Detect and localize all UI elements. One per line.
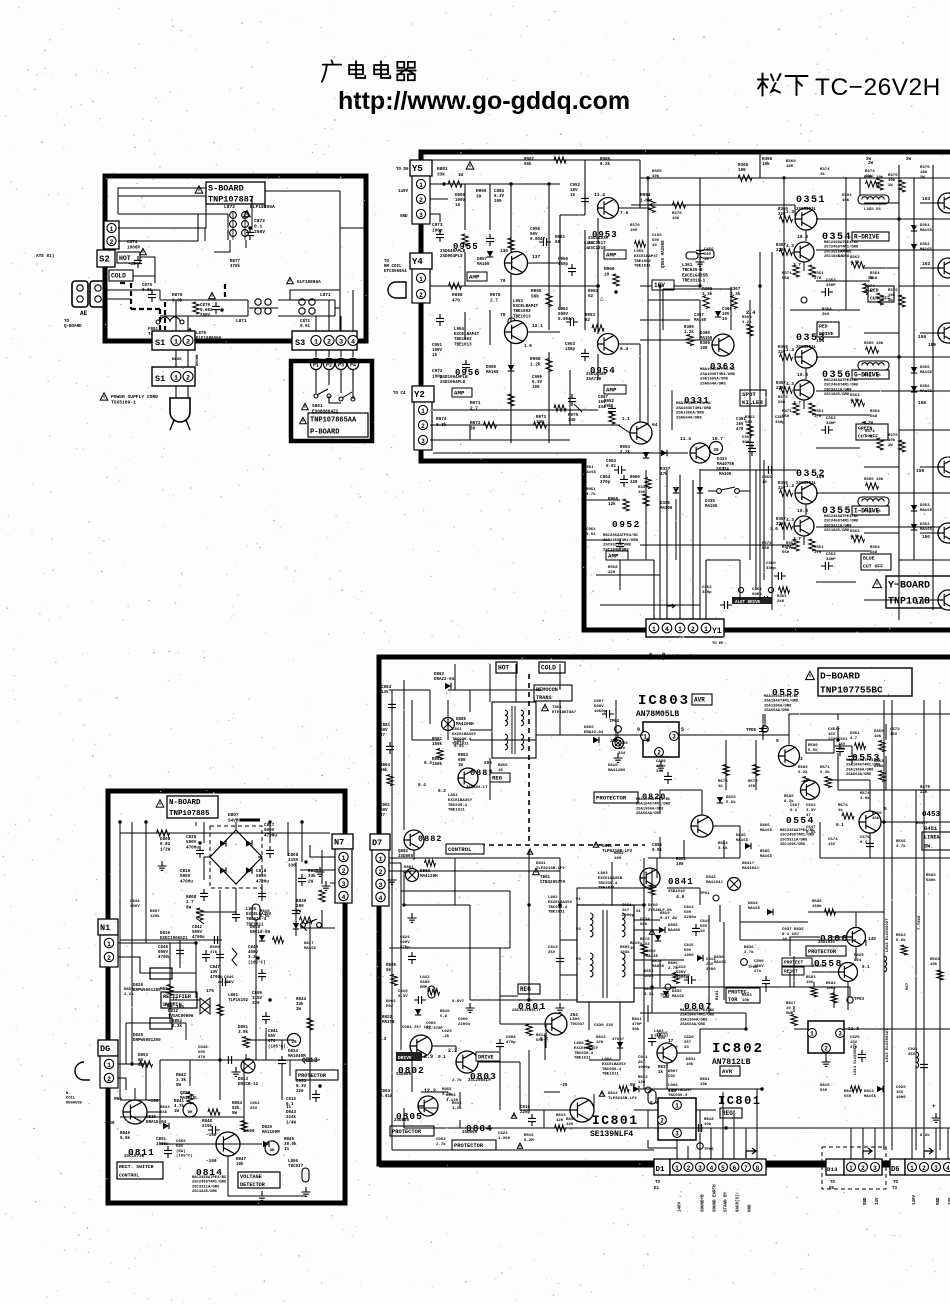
svg-text:D810: D810 [608, 764, 618, 768]
svg-text:TVSAC0000W: TVSAC0000W [168, 1015, 194, 1019]
svg-text:L801: L801 [228, 994, 239, 998]
svg-text:220: 220 [778, 351, 786, 355]
svg-text:MA4120H: MA4120H [608, 769, 625, 773]
svg-text:25?: 25? [684, 1041, 692, 1045]
svg-text:R851: R851 [124, 988, 134, 992]
svg-text:26: 26 [291, 1040, 297, 1045]
svg-text:R−DRIVE: R−DRIVE [854, 234, 880, 241]
svg-text:RESET: RESET [784, 969, 798, 975]
svg-text:R844: R844 [296, 998, 307, 1002]
svg-text:S2: S2 [99, 255, 110, 265]
svg-text:D860: D860 [648, 904, 658, 908]
svg-text:3: 3 [838, 1031, 842, 1038]
svg-text:R357: R357 [776, 244, 786, 248]
svg-text:C820: C820 [684, 1036, 694, 1040]
svg-text:C805: C805 [618, 742, 628, 746]
svg-text:HOT: HOT [498, 665, 509, 672]
svg-text:ELF18856A: ELF18856A [250, 204, 275, 210]
svg-text:C951: C951 [586, 528, 596, 532]
svg-text:26: 26 [713, 447, 719, 453]
svg-text:2: 2 [107, 955, 111, 962]
svg-text:C851: C851 [652, 844, 663, 848]
svg-text:120: 120 [596, 1041, 604, 1045]
svg-text:64: 64 [652, 422, 658, 428]
svg-text:EXCELBA35Y: EXCELBA35Y [602, 1063, 627, 1067]
svg-text:4.7: 4.7 [850, 737, 858, 741]
svg-text:R376: R376 [888, 289, 898, 293]
svg-text:TP04: TP04 [609, 720, 620, 724]
svg-text:2SA564A/OR8: 2SA564A/OR8 [764, 708, 790, 713]
svg-text:R583: R583 [806, 976, 816, 980]
svg-text:E1: E1 [654, 1187, 660, 1191]
svg-text:1.2k: 1.2k [530, 362, 541, 367]
svg-text:TBE1011: TBE1011 [574, 1057, 591, 1061]
svg-text:R013: R013 [638, 1076, 648, 1080]
svg-text:16V: 16V [828, 733, 836, 737]
svg-text:L813 ELC600027: L813 ELC600027 [886, 1028, 890, 1062]
svg-text:RED: RED [819, 323, 828, 329]
svg-text:(105°C): (105°C) [248, 960, 266, 965]
svg-text:137: 137 [532, 254, 541, 260]
svg-text:14V: 14V [876, 1197, 880, 1205]
svg-text:MA165: MA165 [920, 528, 933, 532]
svg-text:C846: C846 [224, 976, 234, 980]
svg-text:Y4: Y4 [412, 257, 423, 267]
svg-text:ER2CR-12: ER2CR-12 [238, 1083, 259, 1087]
svg-text:MA4104J: MA4104J [706, 881, 723, 885]
svg-text:REG: REG [722, 1110, 733, 1117]
svg-text:L305: L305 [838, 250, 848, 254]
svg-text:2.2k: 2.2k [620, 450, 631, 455]
svg-text:8.2k: 8.2k [920, 1133, 930, 1138]
svg-text:R373: R373 [778, 396, 788, 400]
svg-text:103k: 103k [620, 950, 630, 955]
svg-text:D841: D841 [536, 862, 546, 866]
svg-text:IC802: IC802 [712, 1041, 764, 1057]
svg-text:220: 220 [778, 213, 786, 217]
svg-text:R846: R846 [284, 1138, 295, 1142]
svg-text:(NA): (NA) [176, 1149, 186, 1154]
svg-text:2SC3953L: 2SC3953L [796, 208, 817, 212]
svg-text:D335: D335 [705, 500, 715, 504]
svg-text:R370: R370 [920, 166, 930, 170]
svg-text:2W: 2W [296, 1008, 302, 1012]
svg-text:1: 1 [849, 1165, 853, 1172]
svg-text:R574: R574 [838, 804, 848, 808]
svg-text:MA165: MA165 [760, 829, 773, 833]
svg-text:1k: 1k [630, 946, 635, 951]
svg-text:2SC1845/OR5: 2SC1845/OR5 [192, 1189, 218, 1194]
svg-text:1W: 1W [458, 764, 464, 768]
svg-text:1.0k: 1.0k [860, 796, 870, 801]
svg-text:10: 10 [786, 1007, 791, 1011]
svg-text:50V: 50V [700, 925, 708, 929]
svg-text:SE139NLF4: SE139NLF4 [590, 1130, 633, 1139]
svg-text:10V: 10V [722, 313, 730, 317]
svg-text:2SC3311A/OR6: 2SC3311A/OR6 [192, 1184, 220, 1189]
svg-text:2k8: 2k8 [777, 599, 785, 604]
svg-text:100: 100 [532, 386, 540, 390]
svg-text:2W: 2W [868, 162, 874, 166]
svg-text:L357 56: L357 56 [864, 374, 881, 378]
svg-text:P4: P4 [350, 363, 356, 369]
svg-text:1: 1 [678, 626, 682, 633]
svg-text:TNP107885: TNP107885 [169, 810, 210, 818]
svg-text:270: 270 [786, 547, 794, 551]
svg-text:1-2k: 1-2k [452, 1106, 462, 1111]
svg-text:D866: D866 [584, 726, 594, 730]
svg-text:MA860: MA860 [652, 965, 665, 969]
svg-text:10.8: 10.8 [797, 234, 808, 240]
svg-text:DH: DH [270, 1149, 275, 1153]
svg-text:1: 1 [704, 626, 708, 633]
svg-text:16V: 16V [570, 189, 578, 193]
svg-text:11.4: 11.4 [680, 436, 691, 442]
svg-text:136: 136 [500, 249, 508, 254]
svg-text:MA4120H: MA4120H [420, 875, 438, 879]
svg-text:D862: D862 [434, 673, 445, 677]
svg-text:R966: R966 [600, 158, 611, 162]
svg-text:D841: D841 [602, 845, 613, 849]
svg-text:MA105: MA105 [719, 473, 732, 477]
svg-text:MA165: MA165 [736, 839, 749, 843]
svg-text:50V: 50V [684, 949, 692, 953]
svg-text:ELF18896A: ELF18896A [297, 280, 321, 285]
svg-text:56k: 56k [160, 1110, 168, 1115]
svg-text:30k: 30k [632, 1027, 640, 1032]
svg-text:R970: R970 [490, 293, 501, 298]
svg-text:MA165: MA165 [714, 961, 727, 965]
svg-text:1.5k: 1.5k [850, 398, 860, 403]
svg-text:5: 5 [681, 727, 684, 733]
svg-text:470: 470 [452, 298, 460, 303]
svg-text:TC−26V2H: TC−26V2H [815, 74, 941, 101]
svg-text:3: 3 [800, 757, 803, 762]
svg-text:D808: D808 [668, 924, 678, 928]
svg-text:250V: 250V [200, 314, 211, 318]
svg-text:2W: 2W [906, 158, 912, 162]
svg-text:2SC2458T4M1/OR8: 2SC2458T4M1/OR8 [824, 383, 859, 388]
svg-text:TBC030-4: TBC030-4 [574, 1052, 594, 1056]
svg-text:4700u: 4700u [264, 833, 277, 838]
svg-text:R560: R560 [872, 812, 882, 816]
svg-text:0475: 0475 [920, 786, 931, 790]
svg-text:R819: R819 [660, 912, 670, 916]
svg-text:560: 560 [820, 1089, 828, 1093]
svg-text:0.01: 0.01 [652, 849, 663, 853]
svg-text:3: 3 [419, 212, 423, 219]
svg-text:C881: C881 [380, 724, 391, 728]
svg-text:6.2k: 6.2k [820, 770, 830, 775]
svg-text:TBC930-4: TBC930-4 [598, 882, 618, 886]
svg-text:C921: C921 [908, 1048, 918, 1052]
svg-text:D003: D003 [386, 1000, 396, 1004]
svg-text:M8C2458ATPE4/BC: M8C2458ATPE4/BC [780, 828, 815, 833]
svg-text:M8C2458ATPE4/BC: M8C2458ATPE4/BC [603, 533, 639, 538]
svg-text:330: 330 [288, 863, 296, 868]
svg-text:5.6k: 5.6k [896, 938, 906, 943]
svg-text:I1: I1 [286, 1106, 292, 1110]
svg-text:EXCELBA35Y: EXCELBA35Y [448, 799, 473, 803]
svg-text:R011: R011 [452, 1102, 462, 1106]
svg-text:R802: R802 [676, 858, 687, 862]
svg-text:C353: C353 [826, 553, 836, 557]
svg-text:150k: 150k [432, 762, 443, 767]
svg-text:AMP: AMP [454, 390, 465, 397]
svg-text:R967: R967 [524, 158, 535, 162]
svg-text:6: 6 [733, 1165, 737, 1172]
svg-text:4.3: 4.3 [786, 518, 794, 523]
svg-text:25V: 25V [548, 951, 556, 955]
svg-text:MA165: MA165 [304, 947, 317, 951]
svg-text:D833: D833 [726, 796, 736, 800]
svg-text:MA1075L: MA1075L [180, 1097, 198, 1101]
svg-text:14V: 14V [381, 691, 389, 695]
svg-text:3: 3 [675, 1131, 679, 1138]
svg-text:L004: L004 [668, 1084, 678, 1088]
svg-text:6.3V: 6.3V [532, 381, 543, 385]
svg-text:1: 1 [379, 856, 383, 863]
svg-text:150p: 150p [565, 348, 576, 352]
svg-text:R572: R572 [748, 780, 758, 784]
svg-text:R574: R574 [860, 792, 870, 796]
svg-text:D865: D865 [760, 824, 770, 828]
svg-text:2SD1038A: 2SD1038A [586, 373, 607, 377]
svg-text:Y−BOARD: Y−BOARD [888, 581, 930, 592]
svg-text:TBE1011: TBE1011 [548, 911, 565, 915]
svg-text:3: 3 [421, 438, 425, 445]
svg-text:2SA1306A/OR8: 2SA1306A/OR8 [764, 703, 792, 708]
svg-text:16V: 16V [656, 765, 664, 769]
svg-text:R843: R843 [160, 1106, 170, 1110]
svg-text:5: 5 [776, 739, 779, 744]
svg-text:0.4: 0.4 [418, 783, 426, 788]
svg-text:TBE1011: TBE1011 [598, 887, 615, 891]
svg-text:56: 56 [838, 255, 843, 259]
svg-text:3: 3 [339, 339, 343, 347]
svg-text:1/2W: 1/2W [160, 847, 171, 852]
svg-text:R812: R812 [536, 1034, 546, 1038]
svg-text:2: 2 [419, 292, 423, 299]
svg-text:7: 7 [744, 1165, 748, 1172]
svg-text:2: 2 [342, 868, 346, 875]
svg-text:R370: R370 [672, 212, 682, 216]
svg-text:0.01: 0.01 [606, 465, 617, 469]
svg-text:2SD1423A: 2SD1423A [588, 237, 609, 241]
svg-text:1.6: 1.6 [524, 344, 532, 349]
svg-text:D810: D810 [250, 926, 261, 930]
svg-text:R973: R973 [536, 416, 547, 420]
svg-text:0.1 16V: 0.1 16V [782, 933, 799, 937]
svg-text:10: 10 [704, 258, 709, 262]
svg-text:TBC030-4: TBC030-4 [548, 906, 568, 910]
svg-text:2SC3311A/OR8: 2SC3311A/OR8 [780, 837, 808, 842]
svg-text:100: 100 [614, 857, 622, 861]
svg-text:SPOT: SPOT [742, 391, 756, 398]
svg-text:R306: R306 [700, 342, 710, 346]
svg-text:C819: C819 [700, 920, 710, 924]
svg-text:10k: 10k [930, 962, 938, 967]
svg-text:D813: D813 [238, 1078, 249, 1082]
svg-text:N7: N7 [334, 838, 344, 848]
svg-text:2SD1064PL8: 2SD1064PL8 [440, 381, 466, 385]
svg-text:AVR: AVR [722, 1068, 733, 1075]
svg-text:C848: C848 [198, 1046, 208, 1050]
svg-text:2.7k: 2.7k [744, 950, 754, 955]
svg-text:R306 10k: R306 10k [864, 175, 884, 180]
svg-text:500V: 500V [594, 705, 604, 709]
svg-text:10: 10 [652, 244, 657, 248]
svg-text:R357: R357 [776, 382, 786, 386]
svg-text:−160: −160 [244, 1129, 255, 1134]
svg-text:470P: 470P [632, 1023, 642, 1027]
svg-text:2SC2458T4M1/OR8: 2SC2458T4M1/OR8 [780, 833, 815, 838]
svg-text:100V: 100V [455, 199, 466, 203]
svg-text:10: 10 [570, 194, 576, 198]
svg-text:6.2k: 6.2k [798, 770, 808, 775]
svg-text:I7: I7 [668, 1039, 674, 1044]
svg-text:4: 4 [710, 1165, 714, 1172]
svg-text:D951: D951 [584, 466, 594, 470]
svg-text:16V: 16V [828, 843, 836, 847]
svg-text:162: 162 [922, 261, 931, 267]
svg-text:82k: 82k [232, 1106, 240, 1111]
svg-text:TOR: TOR [728, 997, 738, 1003]
svg-text:15: 15 [498, 769, 503, 773]
svg-text:LINEA: LINEA [924, 834, 940, 840]
svg-text:16: 16 [432, 354, 438, 358]
svg-text:163: 163 [922, 196, 931, 202]
svg-text:L954: L954 [454, 328, 465, 332]
svg-text:39.0k: 39.0k [284, 1142, 297, 1147]
svg-text:2.2k: 2.2k [172, 1024, 183, 1029]
svg-text:12.2: 12.2 [424, 1088, 436, 1094]
svg-text:−25: −25 [560, 1084, 568, 1088]
svg-text:68: 68 [555, 241, 561, 245]
svg-text:D836: D836 [672, 990, 682, 994]
svg-text:C006: C006 [426, 1022, 436, 1026]
svg-text:6.4: 6.4 [620, 346, 629, 352]
svg-text:8: 8 [756, 1165, 760, 1172]
svg-text:ALOT DRIVE: ALOT DRIVE [735, 601, 761, 605]
svg-text:SOUND EARTH: SOUND EARTH [714, 1184, 718, 1212]
svg-text:165: 165 [176, 1005, 184, 1010]
svg-text:1050p: 1050p [594, 710, 607, 714]
svg-text:0.3: 0.3 [424, 761, 432, 766]
svg-text:R972: R972 [470, 421, 481, 426]
svg-text:C870: C870 [200, 304, 211, 308]
svg-text:16V: 16V [736, 423, 744, 427]
svg-text:Y2: Y2 [414, 390, 425, 400]
svg-text:TPD5: TPD5 [746, 729, 757, 733]
svg-text:175: 175 [206, 989, 214, 994]
svg-text:1.1: 1.1 [622, 417, 630, 422]
svg-text:R834: R834 [718, 842, 728, 846]
svg-text:100p: 100p [432, 228, 443, 233]
svg-text:R951: R951 [586, 488, 596, 492]
svg-text:M8C2458ATPE4/BC: M8C2458ATPE4/BC [824, 514, 859, 519]
svg-text:MA165: MA165 [920, 371, 933, 375]
svg-text:L812 ELC600027: L812 ELC600027 [886, 918, 890, 952]
svg-text:270: 270 [404, 871, 412, 875]
svg-text:560: 560 [782, 277, 790, 281]
svg-text:56k: 56k [380, 768, 388, 773]
svg-text:6800: 6800 [420, 981, 430, 985]
svg-text:1W: 1W [458, 174, 464, 178]
svg-text:D336: D336 [660, 502, 670, 506]
svg-text:R960: R960 [604, 267, 615, 272]
svg-text:PROTECTOR: PROTECTOR [392, 1129, 422, 1135]
svg-text:C562: C562 [806, 804, 816, 808]
svg-text:1: 1 [174, 339, 178, 347]
svg-text:149: 149 [816, 474, 825, 480]
svg-text:5.6k: 5.6k [260, 914, 270, 919]
svg-text:2: 2 [660, 1118, 664, 1125]
svg-text:62: 62 [585, 319, 591, 323]
svg-text:3: 3 [698, 1165, 702, 1172]
svg-text:2: 2 [691, 626, 695, 633]
svg-text:1k: 1k [718, 784, 723, 789]
svg-text:2SA710: 2SA710 [586, 378, 602, 382]
svg-text:2SD640APLB: 2SD640APLB [440, 250, 466, 254]
svg-text:TNP107755BC: TNP107755BC [820, 684, 883, 695]
svg-text:1: 1 [421, 408, 425, 415]
svg-text:C851: C851 [156, 1138, 167, 1142]
svg-text:1/4W: 1/4W [286, 1120, 297, 1125]
svg-text:REG: REG [492, 775, 503, 782]
svg-text:D007: D007 [668, 1070, 678, 1074]
svg-text:8W: 8W [186, 905, 192, 910]
svg-text:BLUE: BLUE [172, 358, 182, 362]
svg-text:C812: C812 [684, 906, 694, 910]
svg-text:R975: R975 [568, 414, 579, 418]
svg-text:39: 39 [476, 194, 482, 199]
svg-text:9: 9 [637, 727, 640, 733]
svg-text:POWER SUPPLY CORD: POWER SUPPLY CORD [111, 394, 158, 400]
svg-text:C001: C001 [380, 804, 391, 808]
svg-text:2: 2 [421, 423, 425, 430]
svg-text:MA165: MA165 [584, 471, 597, 475]
svg-text:R351: R351 [814, 410, 824, 414]
svg-text:140: 140 [868, 937, 876, 942]
svg-text:R453: R453 [874, 760, 884, 764]
svg-text:R968: R968 [530, 357, 541, 362]
svg-text:R952: R952 [604, 400, 615, 404]
svg-text:0.01: 0.01 [300, 325, 311, 329]
svg-text:R300: R300 [684, 326, 694, 330]
svg-text:2.7: 2.7 [490, 298, 498, 303]
svg-text:R374: R374 [865, 430, 875, 434]
svg-text:N1: N1 [100, 923, 110, 933]
svg-text:M4?: M4? [906, 982, 910, 990]
svg-text:D843: D843 [286, 1111, 297, 1115]
svg-text:0.1: 0.1 [862, 966, 870, 970]
svg-text:70: 70 [500, 312, 506, 318]
svg-text:2SC2458T4M1/OR8: 2SC2458T4M1/OR8 [192, 1180, 227, 1185]
svg-text:R811: R811 [632, 1018, 642, 1022]
svg-text:250V: 250V [254, 229, 265, 235]
svg-text:S3: S3 [295, 338, 305, 348]
svg-text:C872: C872 [254, 218, 265, 224]
svg-text:50V: 50V [652, 239, 660, 243]
svg-text:2: 2 [657, 750, 661, 757]
svg-text:2W: 2W [868, 277, 874, 281]
svg-text:D836: D836 [714, 956, 724, 960]
svg-text:47: 47 [380, 734, 386, 738]
svg-text:TBC030-4: TBC030-4 [602, 1068, 622, 1072]
svg-text:C574: C574 [828, 838, 838, 842]
svg-text:4700u: 4700u [180, 879, 193, 884]
